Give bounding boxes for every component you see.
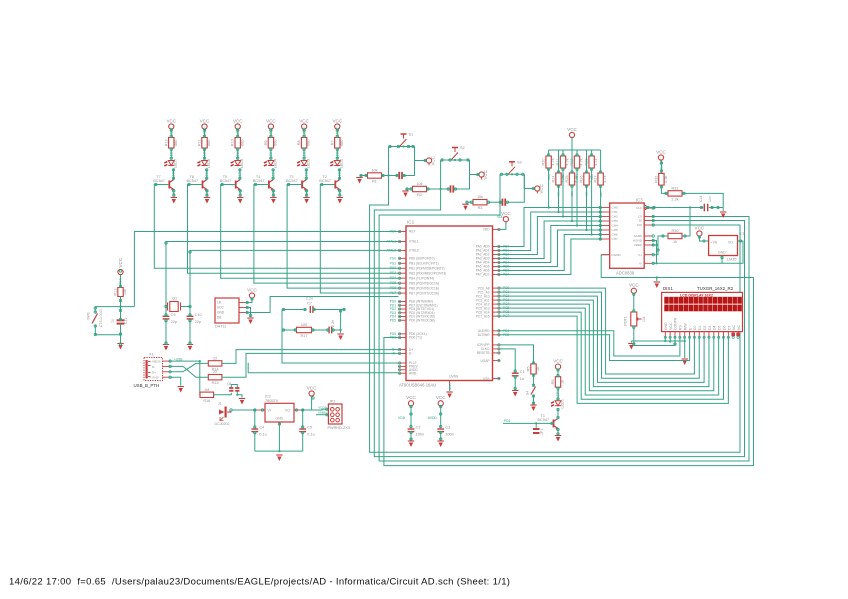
svg-text:XTAL1: XTAL1 (409, 240, 419, 244)
svg-text:IC1: IC1 (407, 220, 415, 225)
resistor R3 (473, 195, 487, 210)
wire DHT11 VCC pin (239, 302, 246, 304)
svg-text:10k: 10k (371, 169, 377, 173)
wire T1 base from IC1 PD4 (503, 422, 554, 424)
ground (IC1 UVSS) (449, 381, 451, 386)
transistor T7 (153, 175, 174, 191)
wire R bank drop CH3 (571, 185, 573, 221)
wire POT1 to LCD CONTR (634, 326, 675, 346)
svg-text:VCC: VCC (436, 395, 446, 400)
svg-text:PD6 (T1): PD6 (T1) (409, 336, 422, 340)
svg-text:D-: D- (409, 352, 412, 356)
wire USB VBUS to R16 (169, 361, 200, 395)
wire ADC CLK line (644, 207, 703, 209)
IC2 7805TV body (265, 395, 294, 423)
wire ground rail (supply) (255, 450, 303, 452)
wire IC1 PC4 to LCD D4 (500, 304, 714, 391)
wire LM35 output to ADC V- (652, 262, 722, 264)
ground (T6 emitter) (204, 198, 210, 204)
svg-text:CLK: CLK (636, 206, 643, 210)
capacitor C10 (189, 307, 191, 317)
wire R30 to ADC V+ (652, 236, 668, 255)
wire DHT11 data pin (239, 312, 246, 314)
svg-text:AVDD: AVDD (428, 416, 438, 420)
svg-text:PG0: PG0 (390, 256, 397, 260)
wire IC1 PA1 to ADC CH1 (500, 212, 602, 251)
svg-text:C1: C1 (520, 370, 525, 374)
svg-text:R8: R8 (297, 140, 301, 145)
svg-text:R32: R32 (654, 176, 658, 183)
ground (S2) (402, 191, 408, 197)
wire VO to JP3 pins (313, 408, 328, 411)
svg-text:R/W: R/W (683, 323, 687, 330)
svg-text:10k: 10k (642, 316, 646, 322)
wire VCC to C3 (440, 406, 442, 428)
svg-text:AD0: AD0 (547, 174, 551, 180)
switch S1 (400, 133, 413, 147)
svg-text:D5: D5 (718, 326, 722, 330)
capacitor C2 (408, 426, 424, 437)
ground (ADC) (654, 282, 660, 288)
wire LCD VCC stub (669, 337, 671, 342)
wire VCC to IC1 VDD (500, 222, 506, 230)
wire T4 emitter to ground (272, 190, 274, 197)
svg-text:4.7k: 4.7k (566, 158, 570, 165)
capacitor C9 (165, 307, 167, 317)
wire R bank drop CH4 (576, 168, 578, 226)
ground (C14) (722, 208, 724, 212)
LCD character cells row 1 (664, 297, 742, 304)
svg-text:GND: GND (448, 383, 452, 391)
capacitor C8 (312, 329, 330, 331)
ground (T5 emitter) (237, 198, 243, 204)
svg-text:+VS: +VS (711, 240, 718, 244)
svg-text:R7: R7 (330, 140, 334, 145)
node pins (DHT11) (246, 298, 253, 317)
capacitor C3 (437, 426, 453, 437)
svg-text:BC547: BC547 (538, 418, 550, 422)
svg-text:CTS-0.0000: CTS-0.0000 (99, 309, 103, 327)
wire T6 base to IC1 (188, 185, 399, 274)
svg-text:VREF: VREF (634, 243, 642, 247)
svg-text:R25: R25 (565, 176, 569, 183)
capacitor C7 (282, 309, 306, 311)
wire USB GND to ground (169, 377, 181, 385)
ground (C9) (163, 345, 169, 351)
svg-text:RESETB: RESETB (477, 351, 490, 355)
wire IC1 PA6 to ADC CH6 (500, 235, 602, 271)
wire C11 to ground rail (120, 307, 122, 321)
svg-text:660: 660 (340, 140, 344, 146)
wire C2 to ground (410, 432, 412, 440)
resistor R10 (231, 138, 245, 149)
resistor R8 (297, 138, 311, 149)
svg-text:R1: R1 (372, 180, 377, 184)
wire IC2 GND down (278, 422, 280, 426)
svg-text:100n: 100n (445, 433, 453, 437)
ground (supply rail) (276, 455, 282, 461)
wire T3 emitter to ground (306, 190, 308, 197)
svg-text:VCC: VCC (539, 184, 544, 193)
ground (C3) (438, 441, 444, 447)
switch SW1 (87, 307, 104, 328)
svg-text:AVID: AVID (409, 371, 417, 375)
svg-text:LED7: LED7 (174, 159, 178, 169)
wire R3 to C and node (487, 201, 503, 203)
switch S3 (509, 160, 522, 174)
resistor R13 (114, 288, 128, 297)
svg-text:R6: R6 (551, 380, 555, 385)
node pins (S1) (360, 145, 427, 176)
wire S2 node (441, 159, 470, 161)
ground (T4 emitter) (270, 198, 276, 204)
svg-text:CH1: CH1 (612, 210, 618, 214)
svg-text:660: 660 (274, 140, 278, 146)
VCC symbol (T3 column) (299, 118, 309, 131)
wire filter to IC1 AVDD (282, 330, 399, 363)
wire VCC to R6 (557, 369, 559, 377)
svg-text:SW1: SW1 (87, 312, 91, 320)
wire IC1 PA5 to ADC CH5 (500, 230, 602, 267)
wire LED4 to T4 collector (272, 169, 274, 180)
resistor R21 (562, 150, 564, 156)
svg-text:VCC: VCC (406, 395, 416, 400)
svg-text:R30: R30 (672, 229, 679, 233)
wire IC1 AREF to C1 (500, 349, 515, 372)
svg-text:VCC: VCC (217, 305, 224, 309)
wire ADC VREF tie (652, 244, 657, 246)
svg-text:LED1: LED1 (560, 399, 564, 409)
svg-text:10n: 10n (708, 196, 712, 202)
node pins (crystal) (165, 242, 191, 344)
node pins (C2) (410, 405, 412, 440)
wire R8 to LED3 (303, 148, 305, 160)
resistor R7 (330, 138, 344, 149)
VCC symbol (T2 column) (332, 118, 342, 131)
svg-text:PWRHD-2X3: PWRHD-2X3 (328, 426, 350, 430)
display DIS1 LCD body (662, 286, 743, 332)
svg-text:R27: R27 (594, 176, 598, 183)
svg-text:PD5: PD5 (390, 318, 396, 322)
IC DHT11 sensor body (215, 298, 239, 329)
connector JP3 PWRHD-2X3 (328, 399, 350, 430)
svg-text:D0: D0 (693, 326, 697, 330)
svg-text:BC547: BC547 (286, 179, 298, 183)
wire R bank drop CH2 (562, 168, 564, 217)
svg-text:1u: 1u (111, 319, 115, 323)
svg-text:PB1 (SCLK/PCINT1): PB1 (SCLK/PCINT1) (409, 261, 439, 265)
svg-text:D2: D2 (703, 326, 707, 330)
connector X1 USB_B_PTH body (134, 353, 163, 389)
wire IC1 ICP to R5 (500, 345, 534, 364)
wire LCD R/W to ground (684, 337, 686, 359)
svg-text:VCC: VCC (233, 118, 243, 123)
wire LED6 to T6 collector (206, 169, 208, 180)
wire reset node rail (95, 306, 134, 308)
wire IC1 PA0 to ADC CH0 (500, 208, 602, 247)
svg-text:CH6: CH6 (612, 233, 618, 237)
svg-text:AD1: AD1 (557, 191, 561, 197)
svg-text:VCC: VCC (299, 118, 309, 123)
IC U1 AT90USB (IC1) body (399, 220, 493, 388)
ground (T3 emitter) (303, 198, 309, 204)
wire IC1 PD3 to bottom bus loop (384, 255, 754, 466)
resistor R26 (586, 150, 588, 173)
svg-text:IC5: IC5 (739, 232, 745, 236)
svg-text:22p: 22p (171, 320, 177, 324)
wire C5 to rail (302, 432, 304, 452)
svg-text:PG3: PG3 (390, 271, 397, 275)
svg-text:1M: 1M (204, 388, 209, 392)
wire R12 to LED7 (170, 148, 172, 160)
svg-text:DCJ0202: DCJ0202 (215, 422, 230, 426)
wire VCC to VO rail (312, 396, 313, 410)
svg-text:10k: 10k (416, 182, 422, 186)
LED LED1 (551, 399, 564, 409)
wire VCC to R8 (303, 129, 305, 137)
svg-text:VO: VO (728, 240, 733, 244)
wire VCC to S2 node (470, 160, 480, 175)
wire LED3 to T3 collector (305, 169, 307, 180)
svg-text:AT90USB646-16AU: AT90USB646-16AU (399, 383, 436, 388)
ground (LCD pin1) (628, 344, 634, 350)
resistor R14 (208, 356, 222, 371)
svg-text:VCC: VCC (669, 322, 673, 330)
svg-text:XTAL2: XTAL2 (409, 249, 419, 253)
capacitor C4 (254, 410, 256, 428)
wire C10 to ground (189, 319, 191, 344)
VCC symbol (DHT11) (247, 287, 257, 300)
capacitor C2 (451, 185, 454, 192)
node pins (reset) (94, 270, 122, 345)
svg-text:R9: R9 (264, 140, 268, 145)
svg-text:AD5: AD5 (585, 191, 589, 197)
wire T7 emitter to ground (173, 190, 175, 197)
wire S3 node (500, 173, 524, 175)
VCC symbol (POT1) (629, 283, 639, 296)
svg-text:ADC0838: ADC0838 (616, 271, 635, 276)
svg-text:S1: S1 (409, 133, 414, 137)
svg-text:RST: RST (409, 230, 415, 234)
wire IC1 PC1 to LCD D1 (500, 292, 699, 378)
svg-text:PG5: PG5 (390, 281, 397, 285)
switch S2 (452, 146, 465, 160)
svg-text:V+: V+ (638, 253, 642, 257)
wire LED2 to T2 collector (339, 169, 341, 180)
wire T3 base to IC1 (287, 185, 398, 289)
resistor R30 (668, 229, 682, 244)
wire USB D- crossing (169, 366, 208, 377)
wire IC1 PC7 to LCD D7 (500, 316, 728, 403)
node pins (T1 column) (514, 362, 559, 435)
wire C14 junction to R30 (682, 208, 690, 237)
wire T5 emitter to ground (239, 190, 241, 197)
svg-text:RS: RS (679, 325, 683, 330)
ground (DHT11) (247, 318, 253, 324)
node pins (T2 column) (321, 129, 341, 196)
resistor R12 (164, 138, 178, 149)
wire C12 to R16 row (236, 391, 238, 395)
svg-text:DB: DB (217, 315, 221, 319)
svg-text:LED3: LED3 (307, 159, 311, 169)
svg-text:PB0 (SS/PCINT0): PB0 (SS/PCINT0) (409, 257, 435, 261)
node pins (CLK line) (647, 162, 719, 209)
resistor R24 (558, 150, 560, 173)
ground (reset) (117, 344, 123, 350)
svg-text:1u: 1u (520, 377, 524, 381)
VCC symbol (5V rail) (307, 385, 317, 398)
wire R bank drop CH0 (548, 168, 550, 208)
resistor R23 (591, 150, 593, 156)
wire R6 to LED1 (557, 387, 559, 400)
capacitor C6 (214, 393, 232, 395)
capacitor C11 (111, 318, 129, 324)
ground (C1) (512, 391, 518, 397)
wire VCC to R32 (660, 160, 662, 173)
svg-text:100: 100 (301, 323, 307, 327)
transistor T4 (253, 175, 274, 191)
VCC symbol (T4 column) (266, 118, 276, 131)
LED LED6 (198, 159, 211, 169)
svg-text:2.2n: 2.2n (331, 320, 335, 327)
wire to ground (reset) (120, 335, 122, 343)
wire LED5 to T5 collector (239, 169, 241, 180)
node reset junction (119, 306, 121, 308)
svg-text:LED1: LED1 (556, 390, 560, 398)
LED LED5 (231, 159, 244, 169)
svg-text:100n: 100n (416, 433, 424, 437)
wire R32 to R31 line (661, 185, 668, 193)
svg-text:VCC: VCC (266, 118, 276, 123)
LCD NC pin marks (731, 333, 735, 337)
node pins (supply) (230, 397, 328, 434)
svg-text:LED2: LED2 (340, 159, 344, 169)
LCD pin name labels (664, 317, 741, 330)
IC3 right pins (633, 206, 652, 265)
wire C4 to rail (254, 432, 256, 452)
svg-text:PB6 (PCINT6/OC1B): PB6 (PCINT6/OC1B) (409, 286, 439, 290)
svg-text:GND: GND (718, 250, 726, 254)
svg-text:660: 660 (174, 140, 178, 146)
wire IC1 to LCD E (500, 335, 690, 361)
svg-text:AD4: AD4 (575, 174, 579, 180)
svg-text:R31: R31 (672, 186, 679, 190)
node pins (T3 column) (287, 129, 307, 196)
svg-text:22: 22 (213, 356, 217, 360)
svg-text:VCC: VCC (553, 358, 563, 363)
svg-text:C7: C7 (307, 302, 312, 306)
svg-text:VCC: VCC (483, 170, 488, 179)
LCD pin stubs (664, 332, 739, 339)
svg-text:CH5: CH5 (612, 228, 618, 232)
svg-text:C3: C3 (445, 426, 450, 430)
svg-text:CH2: CH2 (612, 215, 618, 219)
wire VCC to R10 (237, 129, 239, 137)
svg-text:AD2: AD2 (561, 174, 565, 180)
svg-text:GND: GND (217, 310, 225, 314)
svg-text:GND: GND (276, 417, 284, 421)
svg-text:V-: V- (639, 262, 642, 266)
svg-text:22p: 22p (195, 320, 201, 324)
LCD character cells row 2 (664, 305, 742, 312)
wire R5 to S4 (533, 374, 535, 386)
wire S3 to bottom bus loop (379, 174, 749, 461)
wire R13 to reset node (120, 297, 122, 312)
svg-text:22: 22 (213, 370, 217, 374)
svg-text:VCC: VCC (118, 257, 123, 267)
wire R10 to LED5 (237, 148, 239, 160)
svg-text:DGND: DGND (612, 253, 622, 257)
USB pin stubs (163, 360, 172, 379)
potentiometer POT1 (624, 312, 647, 326)
resistor R5 (527, 364, 541, 374)
wire VCC rail (resistor bank) (571, 138, 573, 150)
svg-text:PD6: PD6 (390, 336, 396, 340)
IC5 LM35 body (709, 232, 745, 262)
svg-text:PB4 (T1/PCINT4): PB4 (T1/PCINT4) (409, 276, 434, 280)
svg-text:D-: D- (152, 365, 155, 369)
svg-text:R13: R13 (114, 289, 118, 296)
wire R1 to C and node (382, 175, 400, 177)
wire S4 to ground (533, 395, 535, 405)
transistor T2 (319, 175, 340, 191)
svg-text:R15: R15 (212, 381, 219, 385)
resistor R25 (571, 150, 573, 173)
svg-text:POT1: POT1 (624, 316, 628, 325)
resistor R2 (413, 182, 427, 197)
ground (LCD R/W) (682, 359, 688, 365)
svg-text:D1: D1 (698, 326, 702, 330)
svg-text:0.1u: 0.1u (307, 433, 314, 437)
wire to IC1 AVID (248, 363, 398, 373)
wire left vertical (filter) (281, 310, 283, 331)
wire T2 emitter to ground (339, 190, 341, 197)
svg-text:CLK: CLK (660, 164, 664, 170)
wire R15 to IC1 D- (222, 353, 399, 377)
svg-text:S2: S2 (460, 146, 465, 150)
svg-text:VCC: VCC (656, 149, 666, 154)
wire XTAL2 net (181, 250, 399, 306)
svg-text:TUXGR_16X2_R2: TUXGR_16X2_R2 (697, 286, 734, 291)
transistor T3 (286, 175, 307, 191)
svg-text:D+: D+ (152, 370, 156, 374)
wire LCD GND rail (631, 340, 684, 342)
svg-text:VCC: VCC (332, 118, 342, 123)
resistor R16 (200, 388, 214, 403)
wire VCC to S1 node (415, 147, 427, 161)
svg-text:DO: DO (637, 223, 642, 227)
resistor R27 (600, 150, 602, 173)
wire VCC to R12 (170, 129, 172, 137)
VCC symbol (T1) (553, 358, 563, 371)
svg-text:CH0: CH0 (612, 206, 618, 210)
wire R2 to C and node (427, 188, 451, 190)
svg-text:7805TV: 7805TV (265, 399, 279, 403)
VCC symbol (C3) (436, 395, 446, 408)
svg-text:BC547: BC547 (319, 179, 331, 183)
wire ADC AGND tie (652, 241, 657, 264)
resistor R11 (198, 138, 212, 149)
wire VCC to LM35 +VS (699, 236, 708, 241)
wire R11 to LED6 (204, 148, 206, 160)
wire ground lead S3 (466, 201, 474, 203)
svg-text:VDD: VDD (483, 228, 490, 232)
VCC symbol (S2) (479, 172, 484, 180)
svg-text:10k: 10k (477, 195, 483, 199)
svg-text:C10: C10 (195, 313, 202, 317)
IC1 right pin rows and labels (476, 228, 510, 381)
VCC symbol (LM35) (695, 225, 705, 238)
